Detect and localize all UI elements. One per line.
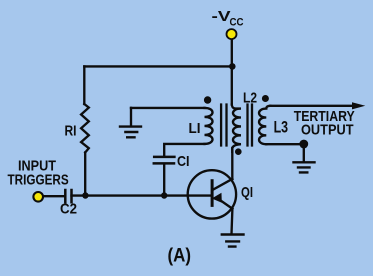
svg-text:QI: QI (241, 184, 253, 201)
emitter arrow (PNP, pointing to base) (213, 194, 221, 202)
junction dot output ground (299, 140, 308, 149)
inductor L2 primary winding (middle) (232, 105, 241, 152)
capacitor C2 plates (65, 190, 71, 202)
junction dot collector/L2 (235, 148, 242, 155)
svg-text:L2: L2 (243, 90, 257, 107)
svg-text:TRIGGERS: TRIGGERS (8, 171, 69, 188)
wire: L1 bottom lead to C1 (164, 144, 204, 156)
svg-text:CI: CI (177, 153, 190, 170)
wire: tertiary output line with arrow (270, 105, 353, 107)
inductor L1 winding (205, 108, 213, 144)
transistor Q1 collector diagonal (213, 179, 233, 190)
capacitor C1 plates (154, 157, 175, 164)
phasing dot L1 (204, 96, 211, 103)
junction dot base/R1 (82, 192, 88, 198)
ground 1 bars (120, 127, 141, 138)
svg-text:CC: CC (230, 16, 244, 28)
ground 3 bars (294, 162, 315, 172)
wire: base wire from input to transistor (43, 194, 211, 197)
transformer core pair 1 (221, 105, 226, 146)
svg-text:LI: LI (189, 120, 201, 137)
resistor R1 zigzag (81, 104, 89, 153)
svg-text:-V: -V (212, 8, 231, 25)
terminal -Vcc (yellow) (227, 29, 237, 39)
transistor Q1 emitter diagonal (220, 200, 233, 209)
svg-text:C2: C2 (60, 201, 77, 218)
svg-text:L3: L3 (274, 119, 289, 137)
wire: emitter to ground 2 (230, 209, 233, 234)
inductor L3 tertiary winding (259, 106, 270, 144)
ground 2 bars (222, 235, 244, 247)
wire: -Vcc stem down to transformer primary (231, 39, 233, 105)
phasing dot L2/L3 (262, 95, 269, 102)
wire: R1 bottom vertical (84, 153, 86, 196)
wire: C1 to base wire (163, 165, 165, 196)
output arrowhead (352, 102, 365, 109)
transistor Q1 circle (188, 170, 236, 218)
ground 1 stem (left, for L1 top) (130, 108, 132, 126)
wire: top rail from R1 to Vcc line (84, 65, 232, 67)
wire: R1 top vertical (83, 66, 85, 104)
wire: collector vertical from L2 dot to transistor (231, 148, 233, 179)
terminal input (yellow) (33, 192, 43, 202)
junction dot on top rail at Vcc line (229, 63, 236, 70)
junction dot base/C1 (161, 192, 167, 198)
svg-text:RI: RI (65, 122, 77, 139)
wire: L3 bottom lead to ground 3 (266, 144, 304, 161)
wire: ground1 to L1 top lead (131, 107, 205, 109)
transformer core pair 2 (248, 105, 253, 146)
svg-text:(A): (A) (168, 245, 192, 267)
svg-text:OUTPUT: OUTPUT (301, 122, 354, 139)
transistor Q1 base bar (211, 181, 214, 206)
